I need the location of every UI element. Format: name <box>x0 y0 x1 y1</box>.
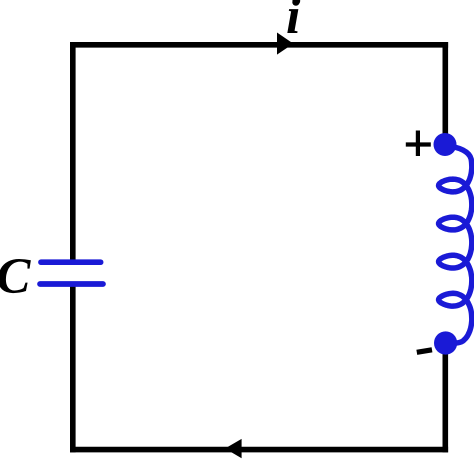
capacitor C top plate <box>41 259 101 265</box>
dot of i <box>292 0 299 6</box>
plus sign <box>406 131 431 157</box>
svg-text:C: C <box>0 249 31 305</box>
wire right upper (top wire to inductor + node) <box>442 42 448 146</box>
capacitor C bottom plate <box>40 281 103 287</box>
wire bottom (return run) <box>70 447 448 453</box>
wire left lower (capacitor bottom plate to bottom wire) <box>70 284 76 453</box>
current arrow bottom (pointing left) <box>225 439 242 458</box>
node dot top (inductor + terminal) <box>434 133 457 156</box>
wire left upper (top wire to capacitor top plate) <box>70 42 76 264</box>
node dot bottom (inductor - terminal) <box>434 331 457 354</box>
inductor coil L <box>439 147 472 344</box>
wire right lower (inductor - node to bottom wire) <box>442 342 448 452</box>
wire top (node A run, carries current i) <box>70 42 448 48</box>
minus sign <box>417 350 432 353</box>
current arrow top (pointing right) <box>277 33 293 55</box>
svg-text:i: i <box>286 0 301 45</box>
